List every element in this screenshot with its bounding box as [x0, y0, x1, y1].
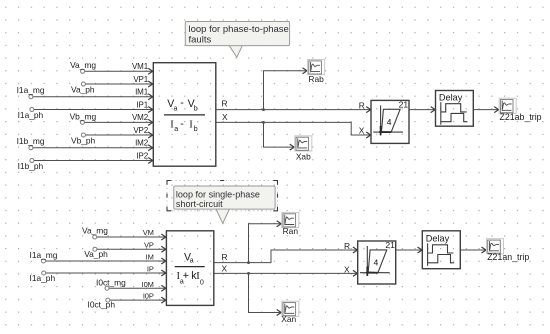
- svg-text:X: X: [359, 126, 365, 136]
- svg-text:IP1: IP1: [136, 100, 148, 109]
- svg-text:I0ct_ph: I0ct_ph: [88, 299, 116, 309]
- svg-text:Vb_ph: Vb_ph: [71, 135, 96, 145]
- svg-text:-: -: [180, 97, 184, 109]
- svg-text:R: R: [222, 252, 228, 262]
- svg-text:I1a_mg: I1a_mg: [30, 250, 58, 260]
- svg-text:X: X: [222, 112, 228, 122]
- svg-text:I0P: I0P: [143, 292, 154, 301]
- svg-text:X: X: [222, 263, 228, 273]
- svg-text:Vb_mg: Vb_mg: [70, 111, 97, 121]
- svg-text:VM: VM: [143, 228, 154, 237]
- svg-text:a: a: [174, 124, 178, 133]
- svg-text:Va_ph: Va_ph: [71, 84, 95, 94]
- svg-text:loop for phase-to-phase: loop for phase-to-phase: [189, 24, 289, 35]
- svg-text:R: R: [344, 241, 350, 251]
- svg-text:IM: IM: [146, 252, 154, 261]
- svg-text:IP: IP: [147, 264, 154, 273]
- svg-text:IM2: IM2: [135, 139, 149, 148]
- svg-text:VP: VP: [144, 241, 154, 250]
- svg-text:I1b_ph: I1b_ph: [18, 161, 44, 171]
- svg-text:Va_mg: Va_mg: [82, 226, 108, 236]
- svg-text:I0ct_mg: I0ct_mg: [96, 278, 126, 288]
- svg-text:X: X: [344, 265, 350, 275]
- svg-text:Va_mg: Va_mg: [70, 60, 96, 70]
- svg-text:b: b: [194, 124, 198, 133]
- svg-text:-: -: [180, 118, 184, 130]
- svg-text:Z21an_trip: Z21an_trip: [487, 252, 529, 262]
- svg-text:VP1: VP1: [133, 75, 148, 84]
- svg-text:VM1: VM1: [132, 62, 149, 71]
- svg-text:I1a_mg: I1a_mg: [17, 85, 45, 95]
- svg-text:I1b_mg: I1b_mg: [17, 136, 45, 146]
- svg-text:IP2: IP2: [136, 151, 148, 160]
- svg-text:a: a: [174, 103, 178, 112]
- svg-text:I0M: I0M: [142, 280, 154, 289]
- svg-text:Z21ab_trip: Z21ab_trip: [500, 112, 542, 122]
- svg-text:IM1: IM1: [135, 88, 149, 97]
- svg-text:+: +: [183, 270, 189, 282]
- svg-text:I1a_ph: I1a_ph: [18, 110, 44, 120]
- svg-text:VM2: VM2: [132, 113, 149, 122]
- svg-text:R: R: [359, 100, 365, 110]
- svg-text:Ran: Ran: [283, 226, 299, 236]
- svg-text:faults: faults: [189, 35, 212, 46]
- svg-text:Rab: Rab: [308, 74, 324, 84]
- svg-text:a: a: [190, 255, 194, 264]
- svg-text:0: 0: [200, 278, 204, 287]
- svg-text:Xan: Xan: [281, 314, 296, 324]
- svg-text:Xab: Xab: [296, 152, 311, 162]
- svg-text:VP2: VP2: [133, 126, 148, 135]
- svg-text:Va_ph: Va_ph: [84, 249, 108, 259]
- svg-text:loop for single-phase: loop for single-phase: [176, 190, 260, 200]
- svg-text:R: R: [222, 99, 228, 109]
- svg-text:b: b: [194, 103, 198, 112]
- svg-text:I1a_ph: I1a_ph: [30, 273, 56, 283]
- svg-text:short-circuit: short-circuit: [176, 199, 223, 209]
- svg-text:I: I: [189, 120, 193, 131]
